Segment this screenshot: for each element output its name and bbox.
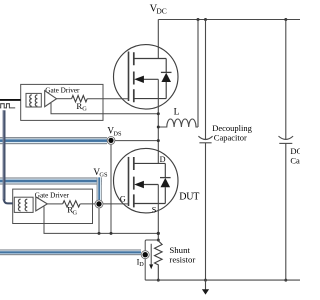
- svg-text:L: L: [174, 107, 180, 117]
- svg-text:DC: DC: [290, 146, 300, 156]
- svg-text:G: G: [82, 106, 87, 113]
- gate driver U1 box: [21, 84, 103, 120]
- wire: ID probe stub: [145, 240, 158, 251]
- wire: bottom ground rail: [145, 279, 300, 281]
- probe point ID: [141, 251, 149, 259]
- gate driver U2 box: [13, 189, 93, 223]
- svg-text:Shunt: Shunt: [169, 245, 190, 255]
- svg-text:Capacitor: Capacitor: [214, 133, 247, 143]
- svg-text:Gate Driver: Gate Driver: [45, 87, 80, 95]
- cable: ID probe lead: [0, 249, 141, 255]
- wire: amp to RG2: [47, 203, 62, 205]
- inductor L: [158, 20, 198, 128]
- svg-text:Decoupling: Decoupling: [212, 123, 252, 133]
- node: midpoint / VDS sense: [157, 139, 160, 142]
- svg-text:DUT: DUT: [179, 192, 199, 203]
- svg-text:DC: DC: [156, 7, 166, 16]
- capacitor: decoupling: [198, 20, 212, 281]
- probe point VDS: [107, 137, 115, 145]
- svg-text:DS: DS: [113, 130, 122, 137]
- probe point VGS: [95, 200, 103, 208]
- label RG1: [76, 101, 87, 113]
- svg-text:D: D: [160, 155, 166, 164]
- wire: VDS probe reference drop: [110, 142, 112, 233]
- label V_DS: [107, 126, 122, 138]
- svg-text:D: D: [139, 261, 144, 268]
- cable: VDS probe lead: [0, 137, 107, 144]
- amplifier U1: [45, 91, 57, 107]
- svg-text:S: S: [152, 205, 157, 214]
- isolator U1: [26, 93, 41, 107]
- wire: RG1 to Q1 gate: [87, 98, 128, 100]
- wire: amp to RG1: [57, 98, 72, 100]
- svg-text:G: G: [73, 210, 78, 217]
- ground current arrow: [205, 280, 207, 290]
- node: kelvin line / DUT source: [157, 232, 160, 235]
- resistor RG2: [63, 201, 80, 207]
- node: top rail / DC capacitor branch: [284, 18, 287, 21]
- capacitor: DC link: [279, 20, 294, 281]
- wire: driver U1 return to midpoint: [51, 103, 158, 114]
- wire: VDS probe to midpoint: [111, 140, 158, 142]
- node: midpoint / driver U1 return: [157, 112, 160, 115]
- node: kelvin line / VGS reference: [98, 232, 101, 235]
- wire: Q1 drain lead from top rail: [157, 20, 159, 59]
- svg-text:GS: GS: [99, 171, 108, 178]
- node: decoupling capacitor / bottom rail: [204, 279, 207, 282]
- cable: pulse signal to driver U2: [3, 110, 13, 203]
- node: shunt / bottom rail: [157, 279, 160, 282]
- node: midpoint / inductor: [157, 126, 160, 129]
- wire: ID probe to bottom rail: [144, 259, 146, 280]
- node: DC capacitor / bottom rail: [284, 279, 287, 282]
- wire: midpoint net (Q1 source to DUT drain): [157, 79, 159, 163]
- mosfet Q2 DUT: [114, 148, 179, 213]
- node: kelvin line / VDS reference: [110, 232, 113, 235]
- cable: VGS probe lead horizontal: [0, 177, 102, 184]
- shunt current arrow: [149, 244, 153, 269]
- shunt resistor: [155, 240, 163, 280]
- node: top rail / decoupling capacitor branch: [204, 18, 207, 21]
- amplifier U2: [36, 197, 48, 211]
- isolator U2: [14, 197, 33, 212]
- svg-text:resistor: resistor: [169, 254, 195, 264]
- wire: RG2 to DUT gate: [80, 203, 128, 205]
- label Shunt resistor: [169, 245, 195, 265]
- wire: input signal to U1: [0, 99, 21, 101]
- mosfet Q1 (high-side switch): [114, 45, 179, 110]
- wire: VDC top rail: [158, 19, 300, 21]
- cable: VGS probe lead vertical: [97, 177, 102, 200]
- pulse waveform icon: [0, 104, 15, 108]
- wire: DUT source to shunt node: [157, 185, 159, 241]
- node: shunt top: [157, 239, 160, 242]
- label V_DC: [150, 4, 167, 16]
- svg-text:Gate Driver: Gate Driver: [35, 192, 70, 200]
- svg-text:Capacitor: Capacitor: [290, 155, 300, 165]
- label Decoupling Capacitor: [212, 123, 252, 143]
- label DC Capacitor: [290, 146, 320, 166]
- label V_GS: [93, 167, 108, 179]
- wire: driver U2 return / kelvin source line: [44, 207, 158, 234]
- node: top rail / inductor branch: [197, 18, 200, 21]
- svg-text:G: G: [120, 195, 126, 204]
- label RG2: [67, 205, 77, 217]
- label I_D: [137, 257, 145, 267]
- wire: VGS probe reference drop: [98, 208, 100, 233]
- resistor RG1: [72, 96, 88, 102]
